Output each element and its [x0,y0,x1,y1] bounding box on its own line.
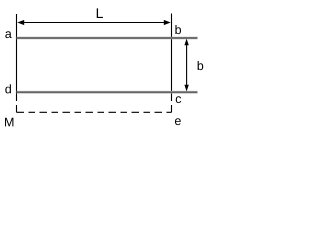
bottom plate line d-c [17,91,198,93]
arrowhead left of L [17,20,24,25]
dashed line M-e [17,111,172,113]
label b (dimension) [198,61,204,70]
arrowhead right of L [164,20,171,25]
top plate line a-b [17,37,198,39]
label e [175,118,181,125]
label L [97,8,103,18]
label M [5,118,13,127]
label b (corner) [175,25,181,34]
bottom plate line d-c halo [17,91,198,94]
label d [5,84,11,93]
arrowhead top of b [184,39,188,46]
label c [176,96,181,103]
dashed riser left [16,105,18,112]
arrowhead bottom of b [184,85,188,92]
dashed riser right [171,105,173,112]
dimension arrow b shaft [186,44,188,86]
label a [5,31,11,38]
left vertical boundary line [16,14,18,101]
top plate line a-b halo [17,37,198,40]
right vertical boundary line [171,14,173,102]
dimension arrow L shaft [23,22,165,24]
